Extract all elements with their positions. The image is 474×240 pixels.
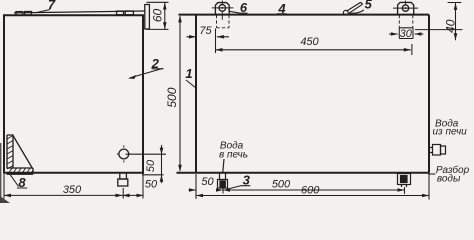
svg-text:30: 30 — [400, 28, 413, 40]
svg-text:воды: воды — [437, 174, 461, 185]
svg-text:5: 5 — [365, 0, 373, 12]
svg-text:450: 450 — [300, 36, 319, 48]
svg-text:60: 60 — [151, 9, 165, 23]
svg-text:350: 350 — [63, 184, 82, 196]
svg-text:1: 1 — [185, 66, 192, 81]
svg-text:75: 75 — [199, 25, 212, 37]
svg-text:40: 40 — [444, 19, 458, 33]
svg-text:500: 500 — [165, 87, 179, 107]
svg-text:600: 600 — [301, 185, 320, 197]
svg-text:из печи: из печи — [432, 127, 467, 138]
svg-text:50: 50 — [201, 176, 214, 188]
svg-text:500: 500 — [272, 179, 291, 191]
svg-text:50: 50 — [145, 159, 157, 172]
svg-text:50: 50 — [145, 179, 158, 191]
svg-text:в печь: в печь — [219, 149, 248, 160]
